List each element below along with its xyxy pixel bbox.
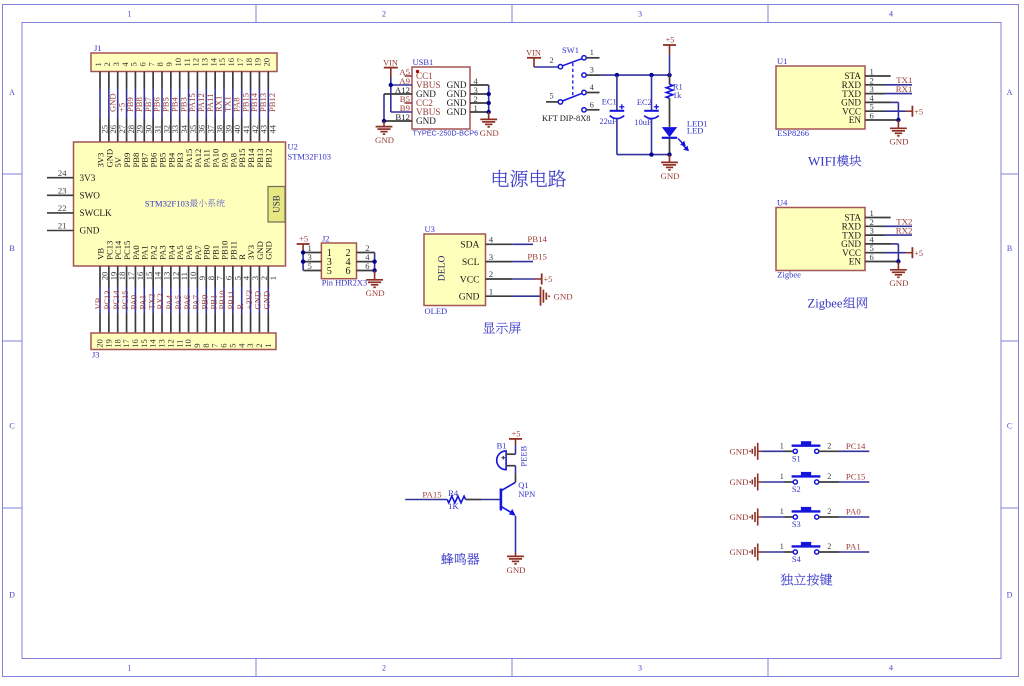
bus wires U2 pins 20-1 to J3 xyxy=(99,266,101,287)
svg-text:3: 3 xyxy=(590,66,594,75)
svg-text:WIFI: WIFI xyxy=(808,154,836,169)
svg-text:GND: GND xyxy=(729,477,748,487)
bus wires J1 pins 1-20 to U2 pins 25-44 xyxy=(99,72,101,90)
svg-text:3: 3 xyxy=(638,664,642,673)
svg-text:4: 4 xyxy=(889,10,893,19)
svg-text:TYPEC-250D-BCP6: TYPEC-250D-BCP6 xyxy=(413,129,479,138)
svg-text:2: 2 xyxy=(827,472,831,481)
wire ground to S2 xyxy=(758,481,762,483)
capacitor EC2 10uF xyxy=(651,75,653,110)
svg-text:3: 3 xyxy=(489,252,494,262)
svg-text:1: 1 xyxy=(590,48,594,57)
svg-text:RX2: RX2 xyxy=(896,226,913,236)
svg-text:D: D xyxy=(9,591,15,600)
WiFi module U1 ESP8266 xyxy=(776,66,865,129)
svg-text:SWCLK: SWCLK xyxy=(80,208,113,218)
wire ground to S3 xyxy=(758,516,762,518)
junction at B12 xyxy=(382,119,386,123)
power port +5 at buzzer xyxy=(509,438,522,440)
svg-text:NPN: NPN xyxy=(518,489,535,499)
OLED module U3 body xyxy=(424,234,486,306)
resistor R4 1K xyxy=(447,496,465,503)
svg-text:B: B xyxy=(9,244,14,253)
svg-text:6: 6 xyxy=(365,261,370,271)
svg-text:J1: J1 xyxy=(94,43,102,53)
svg-text:S1: S1 xyxy=(792,455,801,464)
svg-text:OLED: OLED xyxy=(425,306,448,316)
Zigbee module U4 xyxy=(776,208,865,271)
svg-text:3V3: 3V3 xyxy=(80,173,96,183)
transistor Q1 NPN xyxy=(500,489,503,511)
svg-text:J2: J2 xyxy=(322,234,330,244)
svg-text:1: 1 xyxy=(780,507,784,516)
U4 wiring (TX2,RX2,+5,GND) xyxy=(885,225,913,227)
wire +5 to J2 pins 1/3/5 xyxy=(302,253,304,271)
svg-text:PA15: PA15 xyxy=(422,490,442,500)
resistor R1 1k xyxy=(669,75,671,84)
svg-text:1: 1 xyxy=(780,441,784,450)
ground at USB1 left xyxy=(383,121,385,127)
svg-text:U1: U1 xyxy=(777,56,787,66)
wire S1 to net PC14 xyxy=(819,450,839,452)
title 蜂鸣器 xyxy=(441,553,453,565)
pushbutton S3 xyxy=(793,515,797,519)
svg-text:GND: GND xyxy=(416,116,436,126)
svg-text:GND: GND xyxy=(264,241,274,260)
pushbutton S2 xyxy=(793,480,797,484)
svg-text:KFT DIP-8X8: KFT DIP-8X8 xyxy=(542,114,590,123)
svg-text:GND: GND xyxy=(729,446,748,456)
svg-text:1: 1 xyxy=(268,276,278,280)
MCU U2 STM32F103 body xyxy=(74,142,286,266)
svg-text:2: 2 xyxy=(827,542,831,551)
ground below Q1 xyxy=(515,553,517,557)
svg-text:GND: GND xyxy=(366,288,385,298)
svg-text:Pin HDR2X3: Pin HDR2X3 xyxy=(322,278,367,287)
svg-text:Zigbee: Zigbee xyxy=(777,270,801,280)
ground at USB1 right xyxy=(488,112,490,119)
pin stub A5 CC1 xyxy=(405,75,413,77)
svg-text:GND: GND xyxy=(660,171,679,181)
svg-text:3: 3 xyxy=(638,10,642,19)
svg-text:23: 23 xyxy=(58,186,67,196)
svg-text:PC14: PC14 xyxy=(846,441,866,451)
svg-text:U4: U4 xyxy=(777,198,788,208)
wire VIN to SW1 pin2 xyxy=(534,66,558,68)
USB connector USB1 body xyxy=(412,67,470,129)
svg-text:PEEB: PEEB xyxy=(518,445,528,466)
svg-text:PA0: PA0 xyxy=(846,507,861,517)
wire buzzer to Q1 collector xyxy=(515,466,517,475)
svg-text:B1: B1 xyxy=(497,441,507,451)
svg-text:2: 2 xyxy=(549,56,553,65)
svg-text:4: 4 xyxy=(590,83,594,92)
svg-text:R4: R4 xyxy=(448,488,459,498)
svg-text:4: 4 xyxy=(489,235,494,245)
svg-text:RX1: RX1 xyxy=(896,84,913,94)
svg-text:C: C xyxy=(9,422,14,431)
wire Q1 emitter to ground xyxy=(515,516,517,553)
svg-text:VCC: VCC xyxy=(460,274,480,285)
svg-text:6: 6 xyxy=(346,266,351,277)
svg-text:1K: 1K xyxy=(448,501,459,511)
buzzer B1 BEEP xyxy=(497,451,506,470)
svg-text:22uF: 22uF xyxy=(600,117,617,126)
svg-text:ESP8266: ESP8266 xyxy=(777,128,809,138)
svg-text:44: 44 xyxy=(268,124,278,133)
svg-text:GND: GND xyxy=(729,512,748,522)
wire USB1 GND A12/B12 to ground xyxy=(384,93,412,95)
svg-text:6: 6 xyxy=(590,100,594,109)
svg-text:PC15: PC15 xyxy=(846,472,866,482)
wire ground to S4 xyxy=(758,551,762,553)
svg-text:PA1: PA1 xyxy=(846,542,861,552)
svg-text:2: 2 xyxy=(382,664,386,673)
svg-text:S2: S2 xyxy=(792,485,801,494)
svg-text:VIN: VIN xyxy=(526,49,541,58)
svg-text:+5: +5 xyxy=(914,249,923,258)
svg-text:SWO: SWO xyxy=(80,191,101,201)
svg-text:1k: 1k xyxy=(673,90,682,100)
svg-text:1: 1 xyxy=(780,472,784,481)
junction EC2 bottom xyxy=(649,152,653,156)
svg-text:2: 2 xyxy=(827,507,831,516)
U3 SDA wire and net label PB14 xyxy=(512,243,533,245)
svg-text:SDA: SDA xyxy=(460,240,479,251)
svg-text:A: A xyxy=(9,88,15,97)
svg-text:+5: +5 xyxy=(299,234,308,243)
svg-text:22: 22 xyxy=(58,203,67,213)
svg-text:U3: U3 xyxy=(425,224,435,234)
pushbutton S4 xyxy=(793,550,797,554)
svg-text:+5: +5 xyxy=(666,35,675,44)
connector J3 xyxy=(91,333,276,350)
pin stub B5 CC2 xyxy=(405,102,413,104)
svg-text:1: 1 xyxy=(128,664,132,673)
svg-text:2: 2 xyxy=(827,441,831,450)
connector J2 Pin HDR2X3 body xyxy=(321,243,356,279)
svg-text:D: D xyxy=(1007,591,1013,600)
svg-text:1: 1 xyxy=(780,542,784,551)
svg-text:SCL: SCL xyxy=(462,257,480,268)
ground below LED xyxy=(669,155,671,163)
svg-text:24: 24 xyxy=(58,168,67,178)
svg-text:1: 1 xyxy=(263,344,273,348)
svg-text:U2: U2 xyxy=(288,142,298,152)
svg-text:1: 1 xyxy=(128,10,132,19)
svg-text:SW1: SW1 xyxy=(562,45,579,55)
U3 GND wire to ground xyxy=(512,295,540,297)
svg-text:EN: EN xyxy=(849,115,862,125)
svg-text:+5: +5 xyxy=(914,107,923,116)
svg-text:PB12: PB12 xyxy=(267,93,277,112)
svg-text:STM32F103: STM32F103 xyxy=(145,199,189,209)
svg-text:PB14: PB14 xyxy=(527,234,547,244)
svg-text:GND: GND xyxy=(554,292,573,302)
title 独立按键 xyxy=(781,574,793,586)
wire S3 to net PA0 xyxy=(819,516,839,518)
svg-text:1: 1 xyxy=(489,286,493,296)
svg-text:2: 2 xyxy=(382,10,386,19)
svg-text:20: 20 xyxy=(261,58,271,67)
svg-text:GND: GND xyxy=(889,278,908,288)
U3 VCC wire to +5 xyxy=(512,278,535,280)
power port +5 at J2 xyxy=(297,243,310,245)
svg-text:GND: GND xyxy=(261,291,271,310)
wire ground to S1 xyxy=(758,450,762,452)
svg-text:B: B xyxy=(1007,244,1012,253)
svg-text:GND: GND xyxy=(80,226,100,236)
capacitor EC1 22uF xyxy=(616,75,618,110)
power port +5 above R1 xyxy=(663,44,676,46)
title 显示屏 xyxy=(483,322,495,333)
wire S4 to net PA1 xyxy=(819,551,839,553)
svg-text:GND: GND xyxy=(889,137,908,147)
svg-text:5: 5 xyxy=(308,261,312,271)
wire S2 to net PC15 xyxy=(819,481,839,483)
wire capacitor bottoms to LED cathode xyxy=(617,154,670,156)
wire SW1 pin3 to +5 rail xyxy=(600,74,670,76)
svg-text:10uF: 10uF xyxy=(635,118,652,127)
svg-text:DELO: DELO xyxy=(436,256,447,282)
svg-text:GND: GND xyxy=(729,547,748,557)
wire R4 to Q1 base xyxy=(466,499,481,501)
title 电源电路 xyxy=(493,170,509,187)
svg-text:5: 5 xyxy=(549,91,553,100)
U3 SCL wire and net label PB15 xyxy=(512,261,533,263)
junction LED bottom xyxy=(667,152,671,156)
wire J2 pins 2/4/6 to ground xyxy=(374,253,376,271)
junction +5 rail xyxy=(667,73,671,77)
wire PA15 to R4 xyxy=(405,499,447,501)
svg-text:4: 4 xyxy=(889,664,893,673)
svg-text:EC1: EC1 xyxy=(602,98,617,107)
U1 wiring (TX1,RX1,+5,GND) xyxy=(885,84,913,86)
svg-text:Zigbee: Zigbee xyxy=(808,297,843,311)
svg-text:GND: GND xyxy=(375,135,394,145)
svg-text:21: 21 xyxy=(58,221,67,231)
U2 USB sub-symbol xyxy=(268,187,285,223)
svg-text:+5: +5 xyxy=(512,429,521,438)
svg-text:GND: GND xyxy=(459,292,480,303)
ground at J2 xyxy=(374,271,376,280)
svg-text:PB15: PB15 xyxy=(527,251,547,261)
svg-text:J3: J3 xyxy=(92,350,100,360)
svg-text:5: 5 xyxy=(327,266,332,277)
wires USB1 right GND pins xyxy=(470,84,489,86)
svg-text:EC2: EC2 xyxy=(637,98,652,107)
svg-text:+5: +5 xyxy=(544,275,553,284)
svg-text:VIN: VIN xyxy=(383,58,398,67)
svg-text:USB1: USB1 xyxy=(413,57,434,67)
LED LED1 xyxy=(662,127,677,137)
svg-text:S4: S4 xyxy=(792,555,802,564)
svg-text:S3: S3 xyxy=(792,520,801,529)
svg-text:GND: GND xyxy=(506,565,525,575)
svg-text:2: 2 xyxy=(489,269,493,279)
svg-text:GND: GND xyxy=(480,128,499,138)
svg-text:STM32F103: STM32F103 xyxy=(288,152,331,162)
junction EC1 tap xyxy=(615,73,619,77)
pushbutton S1 xyxy=(793,449,797,453)
U2 left pins 24/23/22/21 (3V3,SWO,SWCLK,GND) xyxy=(47,177,74,179)
junctions USB1 right xyxy=(487,92,491,96)
svg-text:C: C xyxy=(1007,422,1012,431)
svg-text:GND: GND xyxy=(447,107,467,117)
svg-text:EN: EN xyxy=(849,257,862,267)
wire VIN to USB1 VBUS pins A9/B9 xyxy=(390,77,392,112)
svg-text:LED: LED xyxy=(687,126,704,136)
junction at VBUS A9 xyxy=(389,83,393,87)
svg-text:USB: USB xyxy=(271,195,281,213)
junction EC2 tap xyxy=(649,73,653,77)
connector J1 xyxy=(91,53,277,72)
svg-text:PB12: PB12 xyxy=(264,148,274,167)
svg-text:A: A xyxy=(1007,88,1013,97)
